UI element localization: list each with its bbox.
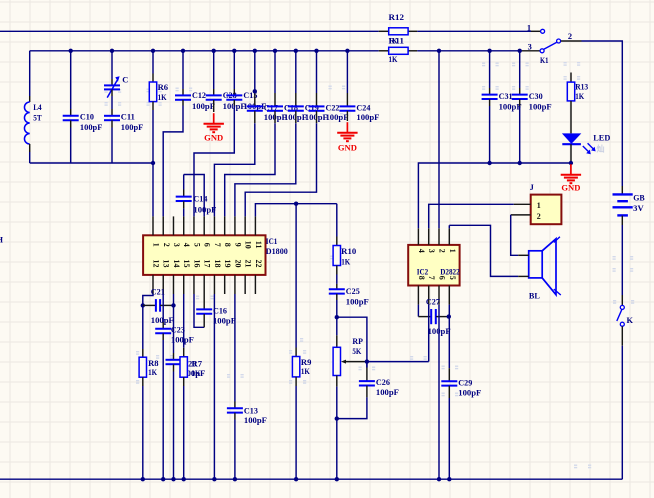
node tank-pin1 [151, 161, 155, 165]
svg-text:5T: 5T [33, 114, 42, 123]
svg-text:1K: 1K [192, 369, 201, 378]
svg-text:100pF: 100pF [499, 103, 522, 112]
capacitor C30 [519, 88, 521, 95]
svg-text:100pF: 100pF [213, 317, 236, 326]
node pin6 bus [437, 477, 441, 481]
node C30 bottom [518, 161, 522, 165]
svg-text:GND: GND [561, 184, 580, 193]
wire R12 to K1 pin1 [417, 30, 531, 32]
svg-text:2: 2 [162, 243, 171, 247]
wire R9 to bus [295, 386, 297, 479]
wire IC2 pin3 net [429, 204, 514, 228]
svg-text:IC1: IC1 [266, 237, 278, 246]
node C13 bus [233, 477, 237, 481]
resistor R7 [183, 348, 185, 357]
capacitor C22 [316, 93, 318, 106]
battery GB [621, 186, 623, 194]
svg-text:5: 5 [448, 276, 457, 280]
wire C26 elbow [337, 397, 367, 418]
wire C22 to pin10 [245, 123, 316, 216]
svg-text:8: 8 [223, 243, 232, 247]
wire C to C11 [111, 96, 113, 109]
svg-text:10: 10 [244, 241, 253, 249]
resistor R6 [152, 74, 154, 83]
node pin18 bus [212, 477, 216, 481]
wire tank bottom [30, 162, 153, 164]
capacitor C26 [366, 368, 368, 382]
node pin5 bus [447, 477, 451, 481]
svg-text:4: 4 [182, 243, 191, 247]
svg-text:R10: R10 [341, 247, 356, 256]
IC2 top pin stubs [417, 228, 419, 245]
wire C31 bottom [489, 106, 491, 163]
svg-text:R13: R13 [575, 83, 588, 92]
svg-text:5: 5 [192, 243, 201, 247]
wire pin20 down [234, 294, 236, 402]
IC IC2 body [408, 245, 459, 286]
resistor R13 [570, 73, 572, 83]
svg-text:16: 16 [192, 260, 201, 268]
node wiper junction [365, 359, 369, 363]
svg-text:1: 1 [537, 201, 541, 210]
svg-text:C13: C13 [244, 406, 258, 415]
capacitor C14 [183, 175, 185, 190]
svg-text:1: 1 [448, 249, 457, 253]
svg-text:灿: 灿 [597, 144, 605, 154]
node C20 bus [171, 477, 175, 481]
svg-text:GB: GB [633, 193, 645, 202]
node C27 right [447, 314, 451, 318]
wire C18 column [274, 51, 276, 93]
potentiometer RP [336, 335, 338, 347]
capacitor C24 [346, 93, 348, 106]
LED [570, 101, 572, 133]
svg-text:C24: C24 [356, 103, 371, 112]
svg-text:100pF: 100pF [193, 205, 216, 214]
svg-text:7: 7 [213, 243, 222, 247]
wire pin6 to bus [438, 305, 440, 480]
connector J box [531, 195, 562, 225]
wire pin11 net [255, 204, 336, 217]
node C31 rail [487, 49, 491, 53]
svg-text:20: 20 [233, 260, 242, 268]
node C28 top [212, 49, 216, 53]
resistor R11 [379, 50, 389, 52]
wire C15 column [233, 51, 235, 89]
capacitor C16 [203, 294, 205, 309]
wire wiper loop [337, 317, 367, 361]
svg-text:100pF: 100pF [171, 335, 194, 344]
svg-text:21: 21 [244, 260, 253, 268]
resistor R10 [336, 237, 338, 246]
svg-text:3: 3 [427, 249, 436, 253]
svg-text:2: 2 [438, 249, 447, 253]
svg-text:100pF: 100pF [458, 388, 481, 397]
wire top rail to R12 [0, 30, 379, 32]
wire C13 to bus [234, 420, 236, 480]
node RP bus [335, 477, 339, 481]
capacitor C20 [173, 353, 175, 360]
speaker BL [529, 251, 543, 278]
capacitor C28 [213, 89, 215, 95]
svg-text:R6: R6 [158, 83, 169, 92]
svg-text:22: 22 [254, 260, 263, 268]
svg-text:C: C [122, 75, 128, 84]
wire C14 to pin4 [183, 208, 185, 216]
svg-text:100pF: 100pF [80, 123, 103, 132]
node C24 top [345, 49, 349, 53]
node tank-C10 [69, 49, 73, 53]
capacitor C18 [274, 93, 276, 106]
capacitor C12 [182, 89, 184, 95]
wire pin15 down [183, 294, 185, 348]
wire L4 bottom [29, 152, 31, 163]
svg-text:19: 19 [223, 260, 232, 268]
wire RP to bus [336, 387, 338, 480]
node tank-C11 [110, 49, 114, 53]
wire pin18 to bus [213, 294, 215, 479]
wire C12 to pin2 [163, 106, 183, 217]
svg-text:BL: BL [529, 291, 540, 300]
wire C20 to bus [173, 372, 175, 480]
capacitor C19 [295, 93, 297, 106]
wire second rail [30, 50, 379, 52]
capacitor C31 [489, 88, 491, 95]
wire R10 to C25 [336, 275, 338, 284]
capacitor C17 [254, 93, 256, 106]
svg-text:C10: C10 [80, 113, 94, 122]
svg-text:1K: 1K [158, 93, 167, 102]
node R8 bus [141, 477, 145, 481]
wire C30 bottom [519, 106, 521, 163]
capacitor C23 [162, 322, 164, 329]
svg-text:100pF: 100pF [376, 388, 399, 397]
node IC2 pin2 rail [437, 49, 441, 53]
svg-text:1K: 1K [389, 55, 398, 64]
node C22 top [314, 49, 318, 53]
wire C31 column [489, 51, 491, 88]
svg-text:3: 3 [172, 243, 181, 247]
node R6 top [151, 49, 155, 53]
capacitor C11 [111, 109, 113, 116]
IC IC1 body [143, 235, 265, 275]
wire pin8 to C27 [417, 305, 419, 317]
wire C10 bottom [70, 128, 72, 164]
node C30 rail [518, 49, 522, 53]
wire K1 pin2 to battery [582, 41, 623, 186]
svg-text:4: 4 [417, 249, 426, 253]
svg-text:C22: C22 [326, 103, 340, 112]
svg-text:2: 2 [568, 32, 572, 41]
node C12 top [181, 49, 185, 53]
inductor L4 [29, 96, 31, 102]
svg-text:9: 9 [233, 243, 242, 247]
wire pin5 down [448, 305, 450, 369]
svg-text:C31: C31 [499, 92, 513, 101]
svg-text:R8: R8 [148, 359, 159, 368]
wire C23 to bus [162, 340, 164, 479]
wire R6 top [152, 51, 154, 74]
node C21 left [141, 303, 145, 307]
svg-text:100pF: 100pF [192, 102, 215, 111]
svg-text:100pF: 100pF [244, 416, 267, 425]
svg-text:100pF: 100pF [346, 297, 369, 306]
svg-text:11: 11 [254, 241, 263, 249]
wire bottom bus [0, 478, 622, 480]
wire C30 column [519, 51, 521, 88]
wire C24 column [346, 51, 348, 93]
ground GND3 [570, 164, 572, 174]
capacitor C10 [70, 109, 72, 116]
svg-text:1K: 1K [301, 367, 310, 376]
node R7 bus [182, 477, 186, 481]
wire C10 column top [70, 51, 72, 109]
svg-text:R11: R11 [389, 37, 405, 46]
svg-text:100pF: 100pF [121, 123, 144, 132]
svg-text:R9: R9 [301, 358, 312, 367]
wire C18 to pin8 [225, 123, 275, 216]
capacitor C25 [336, 284, 338, 289]
resistor R12 [379, 30, 389, 32]
capacitor C13 [234, 402, 236, 409]
svg-text:D1800: D1800 [266, 247, 288, 256]
svg-text:14: 14 [172, 260, 181, 268]
svg-text:GND: GND [338, 144, 357, 153]
wire C25 to RP [336, 300, 338, 335]
wire IC2 pin4 net [418, 163, 571, 228]
capacitor C29 [448, 368, 450, 381]
wire pin12 jog [143, 294, 153, 349]
svg-text:3: 3 [528, 43, 532, 52]
node C26-RP [335, 416, 339, 420]
svg-text:100pF: 100pF [529, 103, 552, 112]
svg-text:C12: C12 [192, 91, 206, 100]
svg-text:15: 15 [182, 260, 191, 268]
svg-text:C29: C29 [458, 378, 472, 387]
node C17 top [253, 49, 257, 53]
wire C29 to bus [448, 398, 450, 479]
svg-text:2: 2 [537, 212, 541, 221]
svg-text:J: J [530, 183, 534, 192]
wire battery to K [621, 225, 623, 295]
IC1 top pin stubs [152, 216, 154, 235]
svg-text:C30: C30 [529, 92, 543, 101]
capacitor C27 [418, 316, 431, 318]
node LED gnd [569, 161, 573, 165]
node C23 bus [161, 477, 165, 481]
svg-text:5K: 5K [352, 347, 361, 356]
wire IC2 pin2 net [438, 51, 440, 229]
wire J pin2 to speaker [511, 215, 519, 255]
svg-text:K: K [627, 316, 634, 325]
svg-text:K1: K1 [540, 56, 549, 65]
wire wiper line [346, 361, 367, 363]
wire C17 to pin7 [214, 123, 254, 216]
svg-text:3V: 3V [633, 204, 644, 213]
node C15 top [232, 49, 236, 53]
svg-text:100pF: 100pF [356, 113, 379, 122]
ground GND2 [346, 122, 348, 132]
wire C28 column [213, 51, 215, 89]
svg-text:13: 13 [162, 260, 171, 268]
node R9 top [294, 202, 298, 206]
wire R9 column [295, 204, 297, 348]
svg-text:LED: LED [593, 133, 610, 142]
svg-text:R12: R12 [389, 13, 405, 22]
svg-text:7: 7 [427, 276, 436, 280]
resistor R8 [142, 349, 144, 357]
switch K [621, 295, 623, 305]
svg-text:1K: 1K [575, 92, 584, 101]
wire C15 to pin5 [194, 106, 234, 217]
svg-text:GND: GND [204, 134, 223, 143]
wire IC2 pin1 net [448, 225, 450, 228]
wire C11 column top [111, 51, 113, 79]
svg-text:18: 18 [213, 260, 222, 268]
svg-text:L4: L4 [33, 103, 42, 112]
svg-text:12: 12 [152, 260, 161, 268]
wire R6 to pin1 [152, 110, 154, 216]
svg-text:C14: C14 [193, 194, 208, 203]
svg-text:1: 1 [152, 243, 161, 247]
svg-text:C26: C26 [376, 378, 390, 387]
wire pin13 down [162, 294, 164, 322]
variable capacitor C [111, 79, 113, 85]
ground GND1 [213, 113, 215, 123]
svg-text:1K: 1K [341, 257, 350, 266]
svg-text:1: 1 [527, 23, 531, 32]
wire pin14 down [173, 294, 175, 353]
wire C22 column [316, 51, 318, 93]
wire pin7 down [428, 305, 430, 362]
IC1 bottom pin stubs [152, 275, 154, 294]
wire R7 to bus [183, 386, 185, 479]
wire tank top corner [29, 51, 31, 96]
wire R8 to bus [142, 386, 144, 479]
node C31 bottom [487, 161, 491, 165]
resistor R9 [295, 348, 297, 357]
svg-text:RP: RP [352, 337, 363, 346]
node R9 bus [294, 477, 298, 481]
svg-text:17: 17 [203, 260, 212, 268]
IC2 bottom pin stubs [417, 286, 419, 305]
wire C11 bottom [111, 128, 113, 164]
svg-text:6: 6 [203, 243, 212, 247]
svg-text:C25: C25 [346, 287, 360, 296]
svg-text:100pF: 100pF [326, 113, 349, 122]
wire R10 column top [336, 204, 338, 237]
svg-text:C11: C11 [121, 113, 135, 122]
node C21 right [171, 303, 175, 307]
node stray [253, 89, 257, 93]
node wiper loop top [335, 315, 339, 319]
svg-text:1K: 1K [148, 368, 157, 377]
node C19 top [294, 49, 298, 53]
wire C19 column [295, 51, 297, 93]
svg-text:6: 6 [438, 276, 447, 280]
node C18 top [273, 49, 277, 53]
wire R11 to K1 pin3 [417, 50, 519, 52]
svg-text:H: H [0, 235, 4, 244]
wire pin16 elbow [194, 294, 204, 327]
capacitor C21 [143, 304, 156, 306]
wire C12 column [182, 51, 184, 89]
wire K to bus [621, 346, 623, 480]
svg-text:R7: R7 [192, 359, 203, 368]
svg-text:100pF: 100pF [151, 316, 174, 325]
capacitor C15 [233, 89, 235, 95]
wire C17 column [254, 51, 256, 93]
wire C19 to pin9 [235, 123, 296, 216]
svg-text:8: 8 [417, 276, 426, 280]
switch K1 [531, 30, 541, 32]
